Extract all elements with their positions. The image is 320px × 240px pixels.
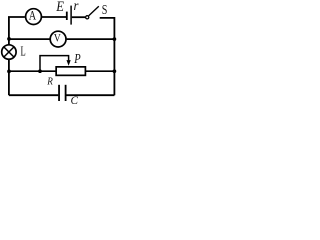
node junction right voltmeter branch (113, 37, 117, 41)
wire rheostat branch right lead (86, 70, 114, 72)
capacitor C right plate (65, 85, 67, 101)
wire wiper link up and across (40, 56, 69, 72)
voltmeter V (50, 31, 66, 47)
wire battery to switch (72, 16, 86, 18)
wiper P arrowhead (67, 60, 71, 66)
svg-text:L: L (21, 44, 26, 58)
svg-text:E: E (55, 0, 64, 14)
wire bottom rail left (9, 94, 58, 96)
node junction left voltmeter branch (7, 37, 11, 41)
wire voltmeter branch right (67, 38, 115, 40)
wire switch fixed contact to top-right corner and down right edge (100, 18, 115, 95)
capacitor C left plate (58, 85, 60, 101)
node junction wiper tap (38, 69, 42, 73)
wire top-left corner and left edge upper (9, 17, 25, 39)
svg-text:V: V (54, 32, 61, 45)
svg-text:A: A (29, 9, 37, 23)
ammeter A (26, 9, 42, 25)
wire left edge lower (lamp to bottom corner) (8, 60, 10, 95)
lamp L circle (2, 45, 16, 59)
node junction right rheostat branch (113, 69, 117, 73)
lamp L cross (4, 47, 14, 57)
rheostat R body (56, 67, 85, 76)
node junction left rheostat branch (7, 70, 11, 74)
svg-text:P: P (73, 51, 81, 67)
wire bottom rail right (66, 94, 114, 96)
svg-text:r: r (74, 0, 80, 13)
wire ammeter to battery (42, 16, 66, 18)
svg-text:S: S (102, 1, 108, 17)
wire voltmeter branch left (9, 38, 51, 40)
switch S blade (89, 6, 99, 16)
wire rheostat branch left lead (9, 70, 56, 72)
svg-text:R: R (46, 76, 53, 88)
svg-text:C: C (71, 95, 79, 107)
battery E short plate (66, 12, 68, 20)
switch S pivot circle (86, 16, 89, 19)
battery E long plate (70, 6, 72, 25)
wire left edge upper middle (node to lamp) (8, 37, 10, 45)
